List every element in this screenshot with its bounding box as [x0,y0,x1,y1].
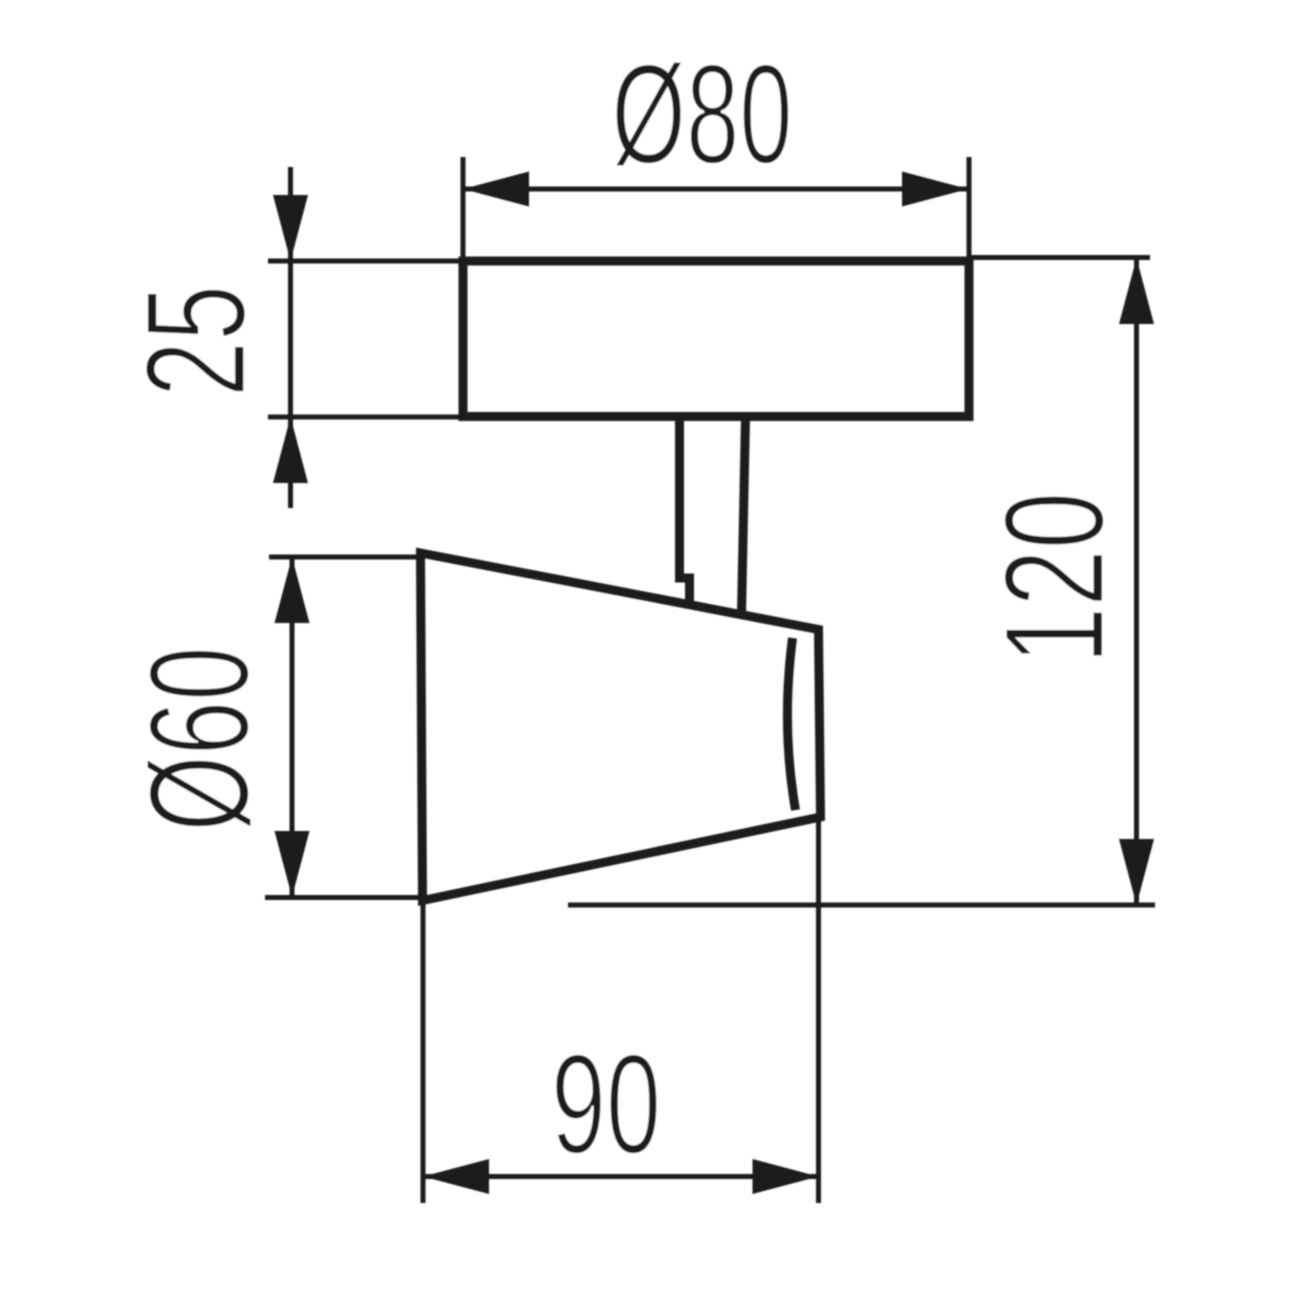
dimension Ø80: left arrowhead [463,172,529,207]
rim inner curve [787,638,795,810]
dimension Ø60: top arrowhead [275,557,310,623]
dimension 90: left arrowhead [423,1159,489,1194]
dimension 25: extension line bottom [268,415,466,420]
svg-text:90: 90 [551,1024,661,1183]
dimension 25: extension line top [268,259,466,264]
dimension 25: upper arrowhead [273,195,308,261]
dimension 90: extension line left [421,903,426,1203]
svg-text:120: 120 [976,492,1134,664]
dimension 120: extension line bottom [568,903,1155,908]
dimension Ø60: dimension line [290,557,295,897]
dimension 90: extension line right [816,821,821,1203]
dimension Ø80: dimension line [463,187,969,192]
svg-text:Ø60: Ø60 [120,646,278,831]
dimension Ø80: right arrowhead [902,172,968,207]
svg-text:Ø80: Ø80 [611,34,792,193]
stem (swivel joint) [680,418,690,605]
dimension Ø60: bottom arrowhead [275,831,310,897]
dimension Ø80: extension line left [461,157,466,258]
dimension Ø60: extension line top [269,555,421,560]
dimension 25: dimension line [288,167,293,508]
dimension 90: right arrowhead [753,1159,819,1194]
dimension 90: dimension line [423,1174,819,1179]
dimension 120: bottom arrowhead [1119,839,1154,905]
svg-text:25: 25 [117,285,276,397]
dimension Ø60: extension line bottom [265,895,423,900]
dimension 120: dimension line [1134,258,1139,905]
dimension 25: lower arrowhead [273,417,308,483]
dimension 120: extension line top [969,255,1150,260]
dimension Ø80: extension line right [967,157,972,258]
lamp cone [421,553,821,901]
dimension 120: top arrowhead [1119,258,1154,324]
mounting plate [463,261,969,417]
